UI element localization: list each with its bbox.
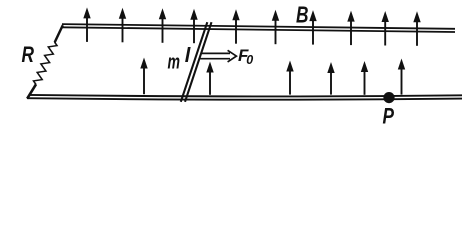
wire: bottom rail (double line) — [27, 95, 462, 100]
conducting rod m,l (double slanted line) — [181, 22, 212, 102]
B field arrow T7 (crosses top rail) — [312, 19, 314, 44]
svg-text:P: P — [383, 104, 395, 129]
svg-text:R: R — [22, 42, 35, 67]
B field arrow T2 (crosses top rail) — [122, 17, 124, 43]
B field arrow T4 (crosses top rail) — [193, 18, 195, 44]
B field arrow T3 (crosses top rail) — [162, 17, 164, 43]
B field arrow M5 (between rails) — [364, 70, 366, 95]
wire: lead from top rail to resistor — [55, 25, 63, 42]
svg-text:0: 0 — [246, 53, 253, 67]
B field arrow M2 (between rails) — [209, 71, 211, 95]
B field arrow M4 (between rails) — [330, 71, 332, 95]
svg-text:m: m — [168, 52, 181, 74]
node P (dot on bottom rail) — [383, 92, 394, 103]
B field arrow T5 (crosses top rail) — [235, 18, 237, 44]
B field arrow T10 (crosses top rail) — [416, 20, 418, 46]
B field arrow M6 (between rails) — [401, 68, 403, 95]
wire: top rail (double line) — [62, 24, 455, 32]
wire: lead from resistor to bottom rail — [27, 84, 36, 98]
B field arrow M3 (between rails) — [289, 70, 291, 95]
B field arrow T6 (crosses top rail) — [275, 19, 277, 45]
B field arrow T1 (crosses top rail) — [86, 16, 88, 42]
B field arrow M1 (between rails) — [143, 67, 145, 95]
force arrow F0 (double-line open arrow) — [200, 50, 236, 62]
resistor R (zigzag) — [34, 42, 58, 85]
svg-text:l: l — [185, 45, 191, 67]
B field arrow T9 (crosses top rail) — [384, 20, 386, 46]
svg-text:B: B — [296, 2, 309, 28]
B field arrow T8 (crosses top rail) — [350, 20, 352, 45]
